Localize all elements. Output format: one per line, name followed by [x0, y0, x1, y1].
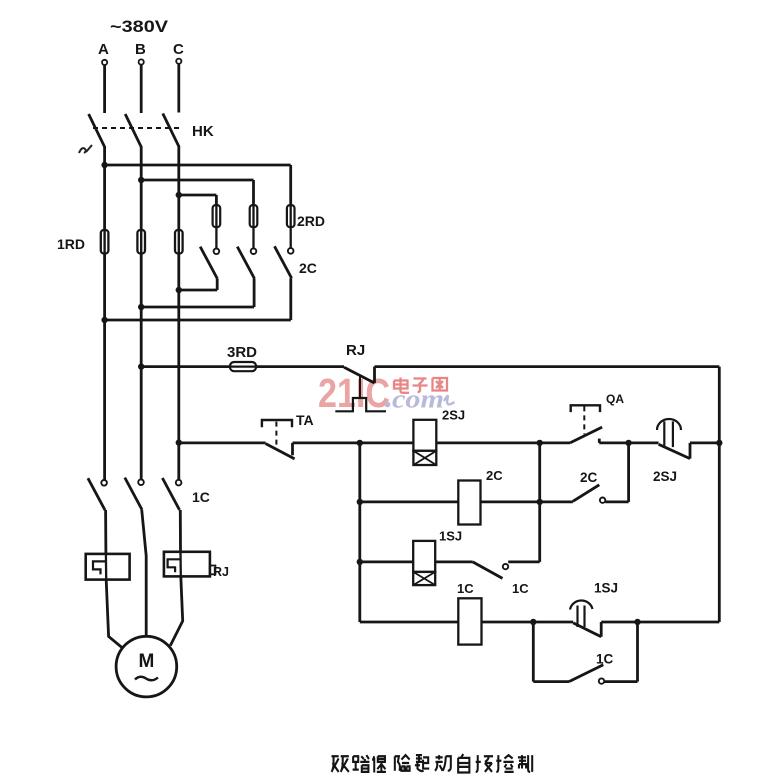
- label 2RD: [297, 213, 325, 229]
- svg-text:2C: 2C: [580, 470, 598, 485]
- left rail: [358, 443, 361, 622]
- wire A heater to motor: [106, 580, 122, 648]
- label phase B: [135, 41, 146, 58]
- label 1RD: [57, 236, 85, 252]
- wire phase C drop: [177, 64, 180, 113]
- wire phase A main: [103, 147, 106, 480]
- switch HK pole C blade: [163, 114, 179, 148]
- label phase C: [173, 41, 184, 58]
- contact 2C (NC): [573, 485, 629, 503]
- svg-text:1RD: 1RD: [57, 236, 85, 252]
- label RJ contact: [346, 342, 365, 359]
- contactor contact 1C pole B: [125, 478, 144, 510]
- wire row2 left: [360, 500, 459, 503]
- label 2SJ coil: [442, 408, 465, 423]
- wire row2 mid: [481, 500, 573, 503]
- contact 1SJ delayed (NO): [570, 601, 601, 637]
- label 1C bypass: [596, 652, 614, 667]
- svg-text:QA: QA: [606, 392, 624, 406]
- contactor contact 1C pole C: [162, 478, 181, 510]
- contactor contact 2C pole 1: [200, 247, 219, 290]
- wire 2C pole2 return: [141, 306, 254, 309]
- fuse 1RD pole B: [137, 230, 145, 254]
- label 1SJ contact: [594, 581, 618, 596]
- wire row4 right: [601, 621, 719, 624]
- handle mark: [79, 145, 92, 153]
- label QA: [606, 392, 624, 406]
- svg-text:2SJ: 2SJ: [442, 408, 465, 423]
- terminal B: [139, 59, 144, 64]
- node B tap: [138, 177, 144, 183]
- label RJ heater: [213, 565, 229, 579]
- label TA: [296, 412, 314, 428]
- label 1SJ coil: [439, 529, 462, 544]
- button QA (NO): [570, 405, 602, 443]
- svg-text:RJ: RJ: [346, 342, 365, 359]
- terminal A: [102, 60, 107, 65]
- coil 2SJ with delay box: [413, 420, 436, 465]
- svg-text:1SJ: 1SJ: [594, 581, 618, 596]
- wire 1C bypass down-left: [532, 622, 535, 682]
- svg-text:2C: 2C: [486, 468, 503, 483]
- coil 1C: [458, 598, 481, 644]
- wire 2C pole3 return: [105, 319, 291, 322]
- svg-text:M: M: [139, 651, 155, 672]
- node QA junction: [625, 440, 631, 446]
- wire phase B main: [140, 147, 143, 480]
- node left rail row1: [357, 440, 363, 446]
- wire 1C bypass up-right: [636, 622, 639, 682]
- coil 2C: [458, 481, 480, 525]
- contactor contact 2C pole 2: [237, 247, 256, 307]
- label 1C coil-row: [457, 581, 474, 596]
- node right rail row1: [716, 440, 722, 446]
- svg-text:C: C: [173, 41, 184, 58]
- svg-text:2C: 2C: [299, 260, 317, 276]
- fuse 1RD pole A: [101, 230, 109, 254]
- right rail: [718, 367, 721, 622]
- wire phase A drop: [103, 65, 106, 113]
- svg-text:2SJ: 2SJ: [653, 469, 677, 484]
- svg-text:RJ: RJ: [213, 565, 229, 579]
- wire B to motor: [142, 510, 147, 637]
- node mid rail row1: [537, 440, 543, 446]
- wire 3RD row right: [375, 365, 720, 368]
- svg-text:B: B: [135, 41, 146, 58]
- node C tap TA: [176, 439, 182, 445]
- svg-text:~380V: ~380V: [110, 17, 169, 36]
- contactor contact 1C pole A: [88, 478, 107, 510]
- fuse 2RD pole C: [213, 205, 221, 248]
- fuse 3RD: [230, 362, 256, 371]
- mid rail: [538, 443, 541, 562]
- fuse 2RD pole B: [250, 205, 258, 248]
- wire phase C main: [177, 147, 180, 481]
- wire 3RD row left: [141, 365, 230, 368]
- contactor contact 2C pole 3: [275, 246, 294, 320]
- coil 1SJ with delay box: [413, 541, 435, 585]
- node B bottom: [138, 304, 144, 310]
- fuse 1RD pole C: [175, 230, 183, 254]
- node C bottom: [176, 287, 182, 293]
- wire phase B drop: [140, 65, 143, 113]
- wire A branch top: [105, 165, 291, 205]
- wire A to heater: [104, 510, 107, 554]
- wire TA to left rail: [293, 441, 414, 444]
- node left rail row2: [357, 499, 363, 505]
- node A tap top: [101, 162, 107, 168]
- wire C to TA: [179, 441, 266, 444]
- terminal C: [176, 59, 181, 64]
- switch HK pole B blade: [125, 114, 141, 148]
- contact 2SJ delayed (NC): [657, 419, 719, 459]
- wire row4 left: [360, 621, 459, 624]
- node left rail row3: [357, 559, 363, 565]
- svg-text:3RD: 3RD: [227, 344, 257, 361]
- label 2C contact: [580, 470, 598, 485]
- label phase A: [98, 41, 109, 58]
- button TA (NC with actuator): [262, 420, 295, 459]
- label 1C contact row3: [512, 581, 529, 596]
- wire row3 mid: [435, 561, 473, 564]
- svg-text:TA: TA: [296, 412, 314, 428]
- wire B branch top: [141, 180, 253, 205]
- switch HK pole A blade: [89, 114, 105, 148]
- svg-text:A: A: [98, 41, 109, 58]
- node C tap: [176, 192, 182, 198]
- label 2SJ contact: [653, 469, 677, 484]
- svg-text:HK: HK: [192, 123, 214, 140]
- node A bottom: [101, 317, 107, 323]
- wire C heater to motor: [170, 576, 182, 645]
- svg-text:2RD: 2RD: [297, 213, 325, 229]
- contact 1C (NC) row3: [473, 562, 540, 579]
- wire 2C pole1 return: [179, 289, 217, 292]
- wire 1C bypass bottom: [533, 680, 569, 683]
- svg-text:1SJ: 1SJ: [439, 529, 462, 544]
- motor M: [116, 636, 177, 697]
- wire C branch top: [179, 195, 217, 205]
- label HK: [192, 123, 214, 140]
- label ~380V supply: [110, 17, 169, 36]
- thermal element RJ phase A: [86, 554, 130, 580]
- svg-text:1C: 1C: [596, 652, 614, 667]
- wire 2C contact up: [627, 443, 630, 502]
- watermark text dianziwang: [394, 378, 447, 393]
- svg-text:1C: 1C: [512, 581, 529, 596]
- node mid rail row2: [537, 499, 543, 505]
- switch HK link (dashed): [93, 127, 180, 129]
- node B tap 3RD: [138, 363, 144, 369]
- relay contact RJ (NC): [335, 367, 386, 412]
- node row4 junction left: [530, 619, 536, 625]
- label 3RD: [227, 344, 257, 361]
- node row4 junction right: [634, 619, 640, 625]
- wire 3RD to RJ contact: [256, 365, 344, 368]
- wire row3 left: [360, 561, 413, 564]
- svg-text:1C: 1C: [457, 581, 474, 596]
- label 2C power: [299, 260, 317, 276]
- watermark .com: [385, 385, 455, 414]
- label 1C power: [192, 489, 210, 505]
- wire 2SJ coil to QA: [436, 441, 570, 444]
- wire C to heater: [179, 510, 182, 552]
- label 2C coil: [486, 468, 503, 483]
- watermark 21IC: [318, 370, 390, 416]
- contact 1C (NO) bypass: [569, 665, 638, 684]
- wire QA to node: [599, 441, 658, 444]
- wire row4 mid: [482, 621, 574, 624]
- fuse 2RD pole A: [287, 205, 295, 248]
- caption: dual-circuit fuse starting auto-transfer control: [332, 754, 533, 772]
- thermal element RJ phase C: [164, 552, 216, 577]
- svg-text:1C: 1C: [192, 489, 210, 505]
